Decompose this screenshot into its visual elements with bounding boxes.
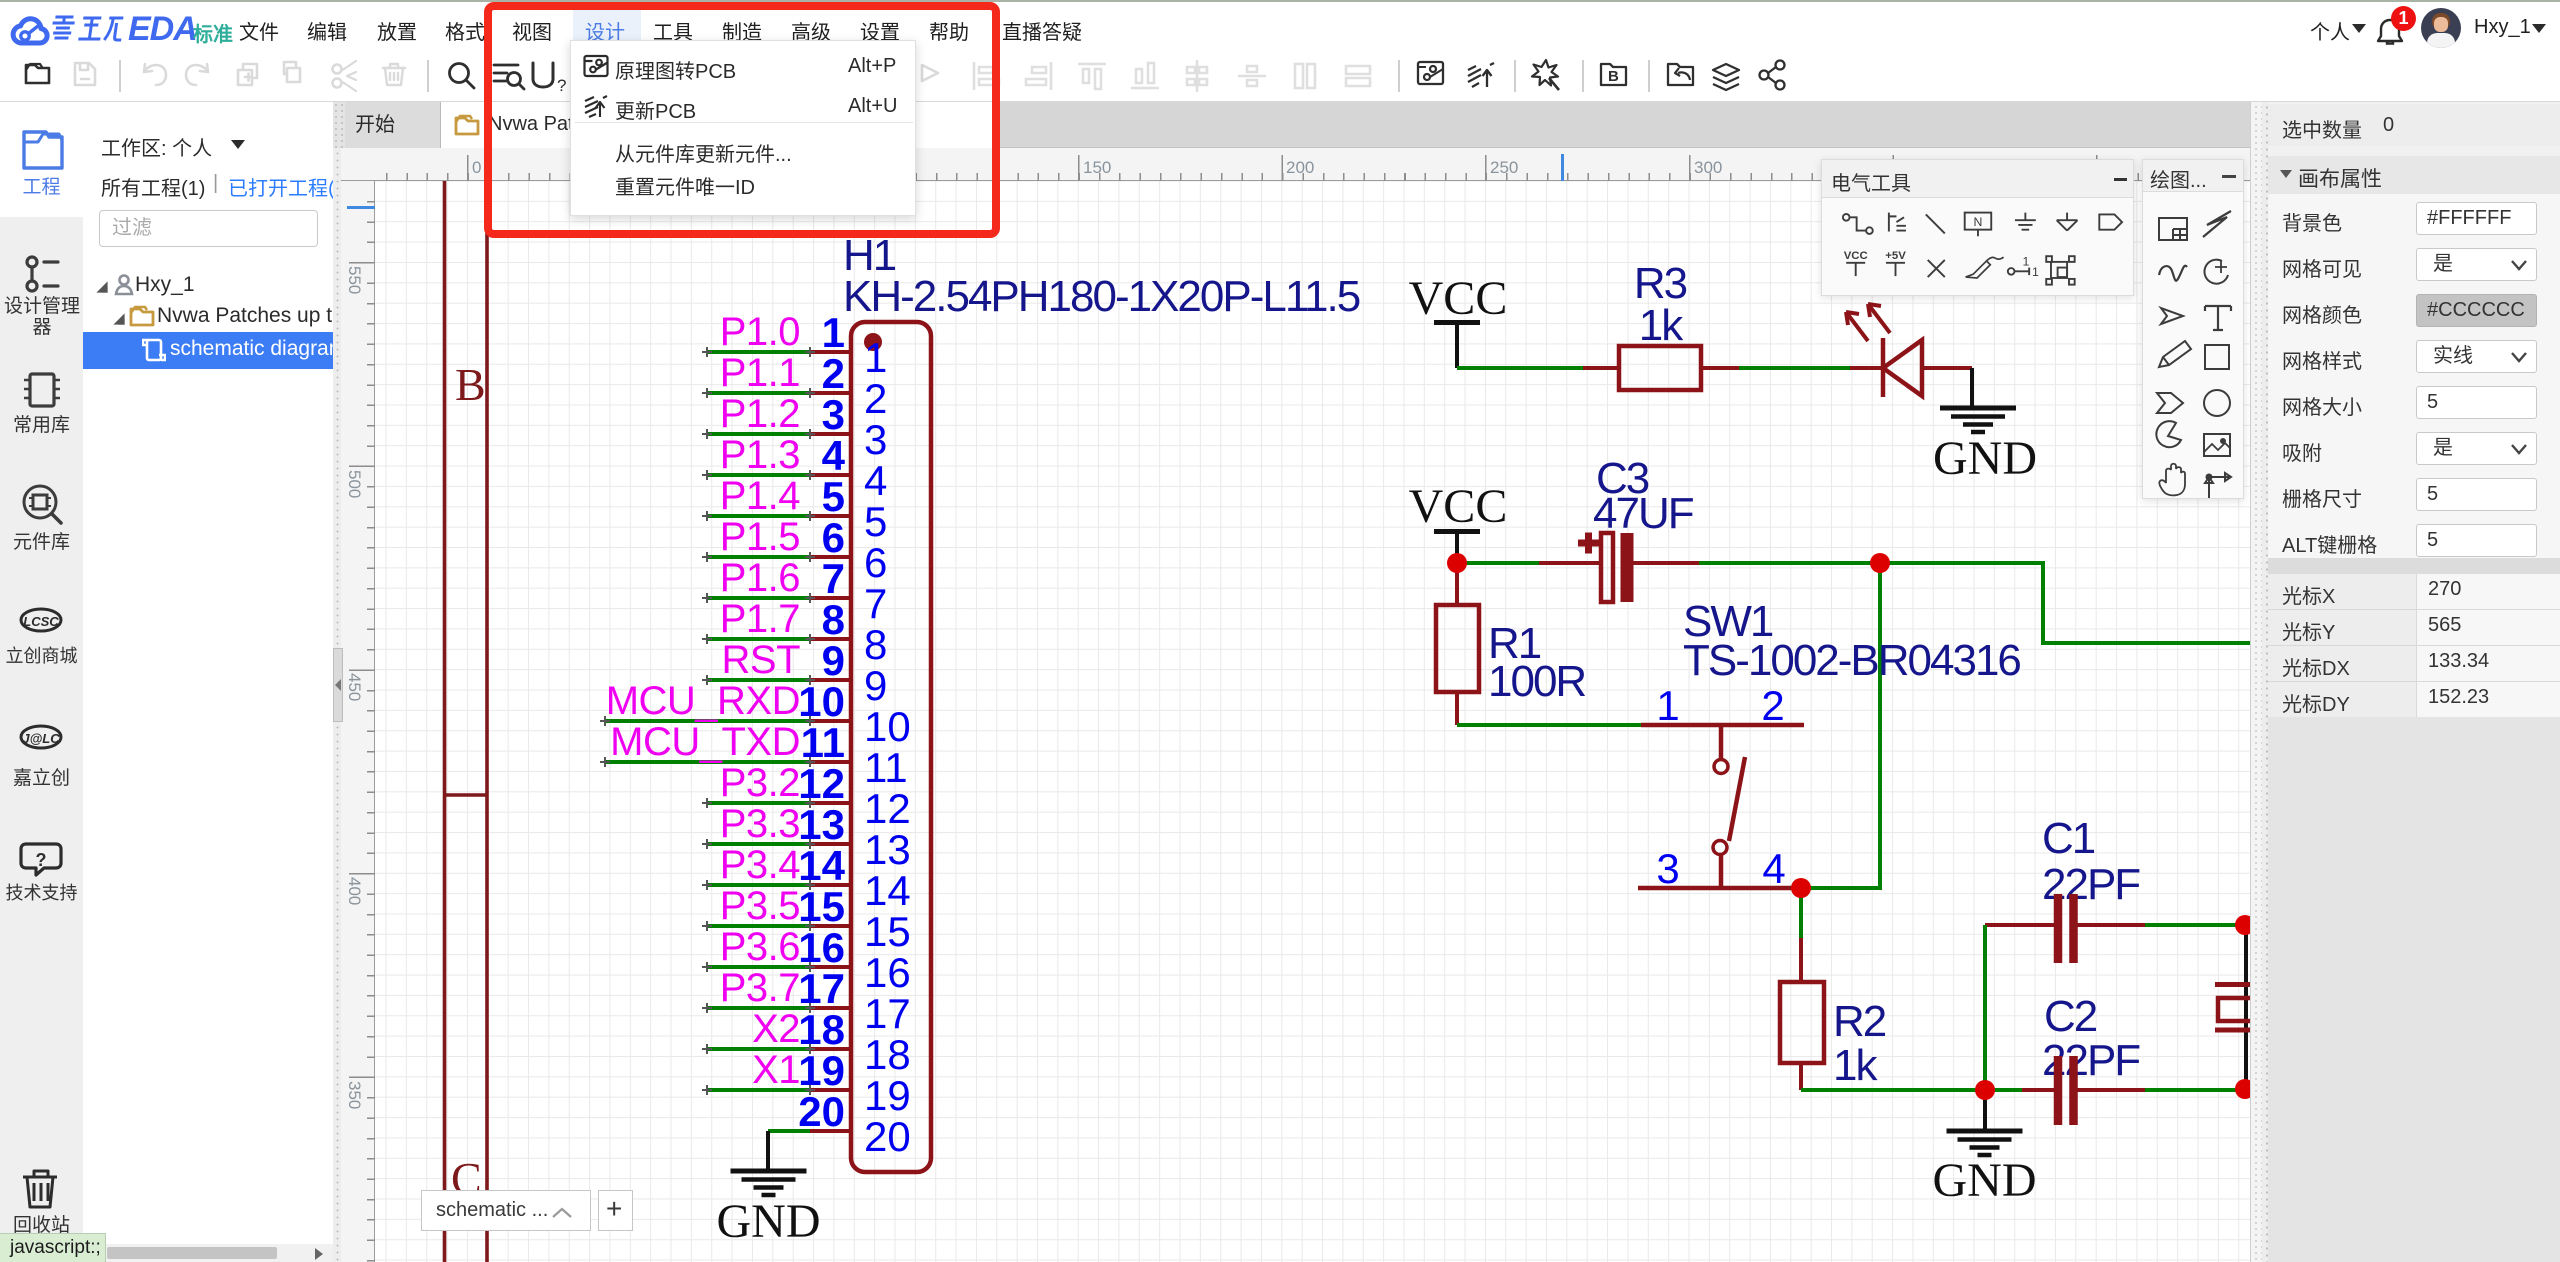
wire SW1 pin4 down to R2: [1799, 888, 1803, 938]
floating drawing tools panel: [2142, 159, 2244, 499]
svg-text:10: 10: [864, 703, 911, 750]
svg-text:2: 2: [1761, 682, 1784, 729]
wire C1 left down to C2: [1983, 925, 1987, 1090]
ruler numbers: [472, 158, 481, 178]
power flag VCC (top): [1434, 323, 1480, 369]
crystal plate bottom: [2215, 1028, 2250, 1033]
wire end marker pin 12: [702, 798, 815, 808]
gnd tool: [2015, 213, 2036, 230]
junction C3 right: [1870, 553, 1890, 573]
svg-text:17: 17: [864, 990, 911, 1037]
image tool: [2204, 434, 2230, 456]
dotted left edge strip: [333, 148, 341, 1262]
tab bar: [333, 102, 2250, 148]
svg-text:18: 18: [798, 1006, 845, 1053]
wire end marker pin 3: [702, 429, 815, 439]
junction VCC/R1/C3: [1447, 553, 1467, 573]
svg-text:TS-1002-BR04316: TS-1002-BR04316: [1683, 636, 2020, 685]
wire end marker pin 10: [600, 716, 815, 726]
wire pin20 to ground: [766, 1131, 770, 1171]
top hairline: [0, 0, 2560, 2]
curve tool: [2159, 266, 2187, 281]
svg-text:2: 2: [864, 375, 887, 422]
svg-text:7: 7: [822, 555, 845, 602]
blue cursor mark on v ruler: [347, 206, 375, 209]
left project panel: [83, 102, 333, 1262]
svg-text:9: 9: [864, 662, 887, 709]
wire C1 to crystal: [2145, 923, 2245, 927]
svg-text:VCC: VCC: [1844, 250, 1868, 262]
origin tool: [2205, 473, 2231, 499]
LED D1 light arrows: [1846, 304, 1890, 341]
bell icon: [2376, 18, 2404, 48]
H1 pin 19 stub: [810, 1088, 851, 1092]
support bubble: [21, 844, 61, 875]
svg-text:3: 3: [1656, 845, 1679, 892]
logo cloud: [8, 12, 52, 52]
svg-text:1: 1: [2023, 255, 2030, 269]
sheet frame left border outer line: [443, 181, 447, 1262]
svg-text:P1.4: P1.4: [720, 474, 801, 518]
wire end marker pin 20: [804, 1125, 806, 1127]
svg-text:11: 11: [864, 744, 908, 791]
svg-text:P3.2: P3.2: [720, 761, 800, 805]
svg-text:+5V: +5V: [1885, 250, 1906, 262]
blue cursor mark on h ruler: [1561, 154, 1564, 181]
header bar: [0, 2, 2560, 50]
wire end marker pin 5: [702, 511, 815, 521]
svg-text:7: 7: [864, 580, 887, 627]
svg-text:16: 16: [864, 949, 911, 996]
pie tool: [2156, 421, 2181, 447]
wire VCC to R3: [1457, 366, 1583, 370]
svg-text:12: 12: [798, 760, 845, 807]
capacitor C2 lead left: [2022, 1088, 2055, 1092]
ground symbol GND2 (LED): [1940, 408, 2016, 432]
svg-text:B: B: [455, 359, 486, 410]
capacitor C3 lead left: [1539, 561, 1601, 565]
switch SW1 top bar pins 1-2: [1641, 723, 1804, 728]
svg-text:19: 19: [798, 1047, 845, 1094]
wire LED to GND2: [1970, 368, 1974, 408]
canvas vertical scrollbar strip: [2250, 102, 2262, 1262]
left icon strip: [0, 102, 83, 1262]
svg-text:13: 13: [798, 801, 845, 848]
switch SW1 upper contact: [1719, 725, 1724, 759]
svg-text:3: 3: [864, 416, 887, 463]
wire to H1 pin 16: [707, 965, 810, 969]
sheet frame left border inner line: [485, 181, 489, 1262]
svg-text:P3.6: P3.6: [720, 925, 800, 969]
wire to H1 pin 4: [707, 473, 810, 477]
wire junction to right corner: [1880, 563, 2250, 643]
wire to H1 pin 13: [707, 842, 810, 846]
H1 pin 10 stub: [810, 719, 851, 723]
wire end marker pin 18: [702, 1044, 815, 1054]
svg-text:3: 3: [822, 391, 845, 438]
wire to H1 pin 1: [707, 350, 810, 354]
H1 pin 18 stub: [810, 1047, 851, 1051]
H1 pin 12 stub: [810, 801, 851, 805]
wire C3 to junction: [1699, 561, 1880, 565]
wire end marker pin 16: [702, 962, 815, 972]
ground symbol GND3: [1947, 1131, 2023, 1155]
capacitor C1 plates: [2058, 894, 2074, 963]
component lib: magnifier with chip: [24, 486, 61, 523]
wire to H1 pin 20: [768, 1129, 810, 1133]
svg-text:1k: 1k: [1639, 301, 1684, 350]
svg-text:1: 1: [1656, 682, 1679, 729]
svg-text:GND: GND: [1933, 432, 2037, 485]
svg-text:17: 17: [798, 965, 845, 1012]
svg-text:P1.5: P1.5: [720, 515, 800, 559]
connector H1 pin-1 marker dot: [864, 333, 882, 351]
wire end marker pin 6: [702, 552, 815, 562]
net label tool: [1965, 213, 1992, 237]
svg-text:VCC: VCC: [1409, 480, 1508, 533]
wire end marker pin 4: [702, 470, 815, 480]
LED D1 cathode bar: [1881, 338, 1886, 397]
floating electrical tools panel: [1821, 159, 2134, 296]
wire GND3 junction stub: [1983, 1090, 1987, 1131]
H1 pin 3 stub: [810, 432, 851, 436]
crystal plate top: [2215, 982, 2250, 987]
svg-text:P1.0: P1.0: [720, 310, 800, 354]
canvas zone: [333, 102, 2250, 1262]
wire to H1 pin 18: [707, 1047, 810, 1051]
svg-text:MCU_TXD: MCU_TXD: [610, 720, 800, 764]
wire tool: [1843, 214, 1873, 234]
text tool: [2205, 306, 2231, 330]
+5V tool: [1885, 250, 1906, 276]
svg-text:2: 2: [822, 350, 845, 397]
svg-text:P1.6: P1.6: [720, 556, 800, 600]
H1 pin 7 stub: [810, 596, 851, 600]
svg-text:14: 14: [864, 867, 911, 914]
wire end marker pin 8: [702, 634, 815, 644]
bottom sheet tab: [421, 1190, 591, 1231]
wire to H1 pin 3: [707, 432, 810, 436]
group tool: [2046, 256, 2074, 284]
H1 pin 8 stub: [810, 637, 851, 641]
H1 pin 2 stub: [810, 391, 851, 395]
svg-text:P3.5: P3.5: [720, 884, 800, 928]
svg-text:P3.7: P3.7: [720, 966, 800, 1010]
svg-text:4: 4: [822, 432, 846, 479]
wire to H1 pin 12: [707, 801, 810, 805]
svg-text:J@LC: J@LC: [22, 731, 60, 746]
collapse handle: [333, 648, 343, 722]
LED D1 triangle: [1883, 340, 1922, 396]
capacitor C1 lead right: [2077, 923, 2145, 927]
svg-text:C1: C1: [2042, 814, 2095, 863]
wire end marker pin 14: [702, 880, 815, 890]
menus: [0, 2, 1200, 50]
capacitor C3 plate 2: [1621, 533, 1634, 602]
svg-text:18: 18: [864, 1031, 911, 1078]
svg-text:100R: 100R: [1488, 657, 1585, 706]
wire R3 to LED: [1739, 366, 1850, 370]
H1 pin 4 stub: [810, 473, 851, 477]
svg-text:VCC: VCC: [1409, 272, 1508, 325]
resistor R3 body: [1619, 346, 1701, 390]
LED D1 right lead: [1922, 366, 1972, 370]
wire end marker pin 11: [600, 757, 815, 767]
right user area: [2280, 2, 2560, 50]
switch SW1 lever: [1729, 757, 1745, 841]
svg-text:1: 1: [864, 334, 887, 381]
capacitor C3 plus sign: [1578, 533, 1599, 554]
svg-text:16: 16: [798, 924, 845, 971]
svg-text:9: 9: [822, 637, 845, 684]
arc-circle tool: [2204, 260, 2228, 284]
svg-text:20: 20: [864, 1113, 911, 1160]
wire to H1 pin 7: [707, 596, 810, 600]
crystal X lead line: [2244, 925, 2248, 1089]
svg-text:X2: X2: [752, 1007, 800, 1051]
resistor R1 body: [1436, 605, 1479, 692]
right properties panel: [2262, 102, 2560, 1262]
svg-text:X1: X1: [752, 1048, 800, 1092]
connector H1 body: [851, 322, 931, 1172]
capacitor C3 plate 1: [1601, 533, 1613, 602]
resistor R2 lead bottom: [1799, 1063, 1803, 1090]
H1 pin 15 stub: [810, 924, 851, 928]
capacitor C3 lead right: [1634, 561, 1700, 565]
LCSC oval: [21, 609, 61, 631]
工程 folder icon: [24, 132, 62, 168]
circle tool: [2204, 390, 2230, 416]
J@LC oval: [21, 726, 61, 748]
wire to H1 pin 6: [707, 555, 810, 559]
wire to H1 pin 19: [707, 1088, 810, 1092]
wire to H1 pin 14: [707, 883, 810, 887]
svg-text:14: 14: [798, 842, 845, 889]
svg-text:6: 6: [822, 514, 845, 561]
ground symbol GND1 under connector: [731, 1171, 807, 1195]
resistor R2 lead top: [1799, 938, 1803, 982]
svg-text:P3.3: P3.3: [720, 802, 800, 846]
svg-text:15: 15: [864, 908, 911, 955]
H1 pin 17 stub: [810, 1006, 851, 1010]
wire to H1 pin 2: [707, 391, 810, 395]
svg-text:5: 5: [864, 498, 887, 545]
red highlight rectangle: [484, 2, 1000, 238]
H1 pin 1 stub: [810, 350, 851, 354]
svg-text:15: 15: [798, 883, 845, 930]
rect tool: [2205, 345, 2229, 369]
sheet frame zone divider: [443, 793, 489, 797]
svg-text:?: ?: [36, 850, 47, 870]
resistor R1 lead top: [1455, 563, 1459, 605]
grid canvas: [375, 181, 2250, 1262]
resistor R2 body: [1780, 982, 1824, 1063]
bus entry tool: [1889, 213, 1906, 232]
wire C2 to crystal bottom: [2145, 1088, 2245, 1092]
capacitor C2 lead right: [2077, 1088, 2145, 1092]
resistor R3 lead right: [1701, 366, 1739, 370]
tree: [96, 281, 107, 292]
junction SW1 pin4: [1791, 878, 1811, 898]
wire to H1 pin 10: [605, 719, 810, 723]
polygon tool: [2157, 393, 2183, 413]
svg-text:LCSC: LCSC: [23, 614, 59, 629]
junction C2/GND: [1975, 1080, 1995, 1100]
junction crystal bottom: [2235, 1079, 2255, 1099]
svg-text:8: 8: [822, 596, 845, 643]
wire to H1 pin 11: [605, 760, 810, 764]
power flag VCC (middle): [1434, 532, 1480, 564]
svg-text:11: 11: [801, 719, 845, 766]
gnd triangle tool: [2057, 213, 2078, 231]
wire end marker pin 7: [702, 593, 815, 603]
crystal body: [2218, 998, 2256, 1021]
chip icon: [24, 374, 60, 406]
svg-text:1: 1: [822, 309, 845, 356]
wire end marker pin 15: [702, 921, 815, 931]
wire to H1 pin 17: [707, 1006, 810, 1010]
switch SW1 bottom bar pins 3-4: [1638, 886, 1802, 891]
VCC tool: [1844, 250, 1868, 276]
svg-text:N: N: [1974, 215, 1983, 229]
no connect tool: [1928, 260, 1945, 277]
design manager icon: [27, 257, 58, 291]
capacitor C1 lead left: [1985, 923, 2055, 927]
H1 pin 14 stub: [810, 883, 851, 887]
resistor R1 lead bottom: [1455, 692, 1459, 725]
svg-text:B: B: [1608, 68, 1619, 85]
probe tool: [1966, 257, 2004, 278]
svg-text:C2: C2: [2044, 992, 2097, 1041]
svg-text:8: 8: [864, 621, 887, 668]
wire to H1 pin 15: [707, 924, 810, 928]
LED D1 anode lead: [1850, 366, 1883, 370]
javascript tooltip: [0, 1233, 106, 1262]
H1 pin 9 stub: [810, 678, 851, 682]
svg-text:1k: 1k: [1833, 1041, 1878, 1090]
svg-text:6: 6: [864, 539, 887, 586]
horizontal ruler: [333, 148, 2250, 181]
pin number tool: [2008, 255, 2039, 279]
schematic svg placeholder: [375, 181, 2250, 1262]
bottom horizontal scrollbar: [83, 1244, 333, 1262]
svg-text:13: 13: [864, 826, 911, 873]
capacitor C2 plates: [2058, 1056, 2074, 1125]
pencil tool: [2159, 341, 2191, 367]
polyline tool: [2203, 211, 2231, 237]
H1 pin 16 stub: [810, 965, 851, 969]
svg-text:GND: GND: [1933, 1154, 2037, 1207]
svg-text:P1.1: P1.1: [720, 351, 800, 395]
wire to H1 pin 8: [707, 637, 810, 641]
toolbar: [0, 50, 2560, 102]
trash: [23, 1171, 57, 1207]
svg-text:20: 20: [798, 1088, 845, 1135]
svg-text:12: 12: [864, 785, 911, 832]
wire junction down to SW1 pin4: [1801, 563, 1880, 888]
svg-text:4: 4: [864, 457, 887, 504]
wire end marker pin 9: [702, 675, 815, 685]
svg-text:19: 19: [864, 1072, 911, 1119]
wire to H1 pin 9: [707, 678, 810, 682]
arrow tool: [2161, 308, 2183, 324]
svg-text:P3.4: P3.4: [720, 843, 801, 887]
svg-text:5: 5: [822, 473, 845, 520]
sheet tool: [2159, 218, 2187, 240]
wire end marker pin 2: [702, 388, 815, 398]
greyed alignment icons: [974, 60, 1370, 92]
wire R2 to GND junction: [1801, 1088, 2022, 1092]
svg-text:10: 10: [798, 678, 845, 725]
hand tool: [2159, 464, 2185, 496]
H1 pin 6 stub: [810, 555, 851, 559]
wire to H1 pin 5: [707, 514, 810, 518]
H1 pin 5 stub: [810, 514, 851, 518]
svg-text:RST: RST: [722, 638, 801, 682]
svg-text:GND: GND: [717, 1195, 821, 1248]
dropdown menu: [570, 40, 916, 216]
avatar: [2421, 8, 2461, 48]
svg-text:P1.2: P1.2: [720, 392, 800, 436]
resistor R3 lead left: [1583, 366, 1619, 370]
svg-text:MCU_RXD: MCU_RXD: [606, 679, 800, 723]
svg-text:KH-2.54PH180-1X20P-L11.5: KH-2.54PH180-1X20P-L11.5: [843, 272, 1360, 321]
svg-text:P1.3: P1.3: [720, 433, 800, 477]
wire end marker pin 13: [702, 839, 815, 849]
wire end marker pin 19: [702, 1085, 815, 1095]
junction crystal top: [2235, 915, 2255, 935]
svg-text:P1.7: P1.7: [720, 597, 800, 641]
H1 pin 13 stub: [810, 842, 851, 846]
svg-text:R2: R2: [1833, 997, 1886, 1046]
wire end marker pin 17: [702, 1003, 815, 1013]
H1 pin 11 stub: [810, 760, 851, 764]
H1 pin 20 stub: [810, 1129, 851, 1133]
net flag tool: [2099, 214, 2122, 229]
svg-text:47UF: 47UF: [1593, 489, 1694, 538]
wire R1 to SW1 pin1: [1457, 723, 1641, 727]
wire VCC junction to C3: [1457, 561, 1539, 565]
svg-text:4: 4: [1762, 845, 1785, 892]
vertical ruler: [333, 181, 375, 1262]
line tool: [1926, 214, 1945, 233]
switch SW1 lower contact: [1713, 841, 1727, 855]
wire end marker pin 1: [702, 347, 815, 357]
svg-text:1: 1: [2032, 265, 2039, 279]
